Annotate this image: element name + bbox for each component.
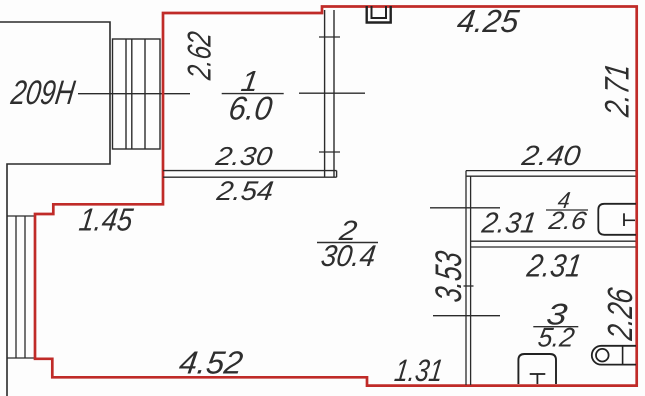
neighbouring unit 209H outline [0,22,110,396]
leader line from 209H [78,93,190,95]
room 1 label underline [222,93,284,95]
left party-wall hatch strip [7,216,35,358]
sink in room 3 [592,346,636,365]
svg-text:5.2: 5.2 [536,322,576,353]
room 1 bottom wall [163,171,337,178]
dimension tick 2.31 / 3.53 top [430,207,500,209]
svg-text:4.52: 4.52 [177,345,245,381]
dimension tick 3.53 bottom [433,315,500,317]
toilet [518,354,556,384]
svg-text:2.40: 2.40 [519,140,583,171]
svg-text:2.31: 2.31 [524,248,584,284]
svg-text:209Н: 209Н [8,74,77,112]
room 1 right wall [325,10,334,177]
rooms 3-4 partition wall (left) [466,171,471,385]
svg-text:2.71: 2.71 [599,61,637,119]
svg-text:2.54: 2.54 [214,175,275,206]
staircase hatch block at top [113,39,161,149]
svg-text:3.53: 3.53 [427,248,469,304]
ventilation shaft symbol [367,6,391,23]
svg-text:6.0: 6.0 [226,91,275,128]
washbasin in room 4 [598,204,636,235]
room 4 top wall [466,171,636,177]
svg-text:1.31: 1.31 [393,353,446,388]
room 1 right wall opening ticks [319,37,340,152]
partition wall door tick [464,285,474,287]
svg-text:4.25: 4.25 [455,3,521,39]
room 1 label dimension line [299,92,365,94]
room 4 bottom wall [471,241,636,247]
room 3 label underline [533,326,578,328]
room 2 label underline [317,242,378,244]
svg-text:2.26: 2.26 [601,285,640,343]
svg-text:2.6: 2.6 [546,207,588,235]
svg-text:2.31: 2.31 [479,208,538,240]
room 4 label underline [546,209,588,211]
svg-text:1.45: 1.45 [77,202,135,238]
svg-text:2.30: 2.30 [213,141,275,171]
svg-text:30.4: 30.4 [319,240,378,273]
svg-text:2.62: 2.62 [182,29,219,82]
